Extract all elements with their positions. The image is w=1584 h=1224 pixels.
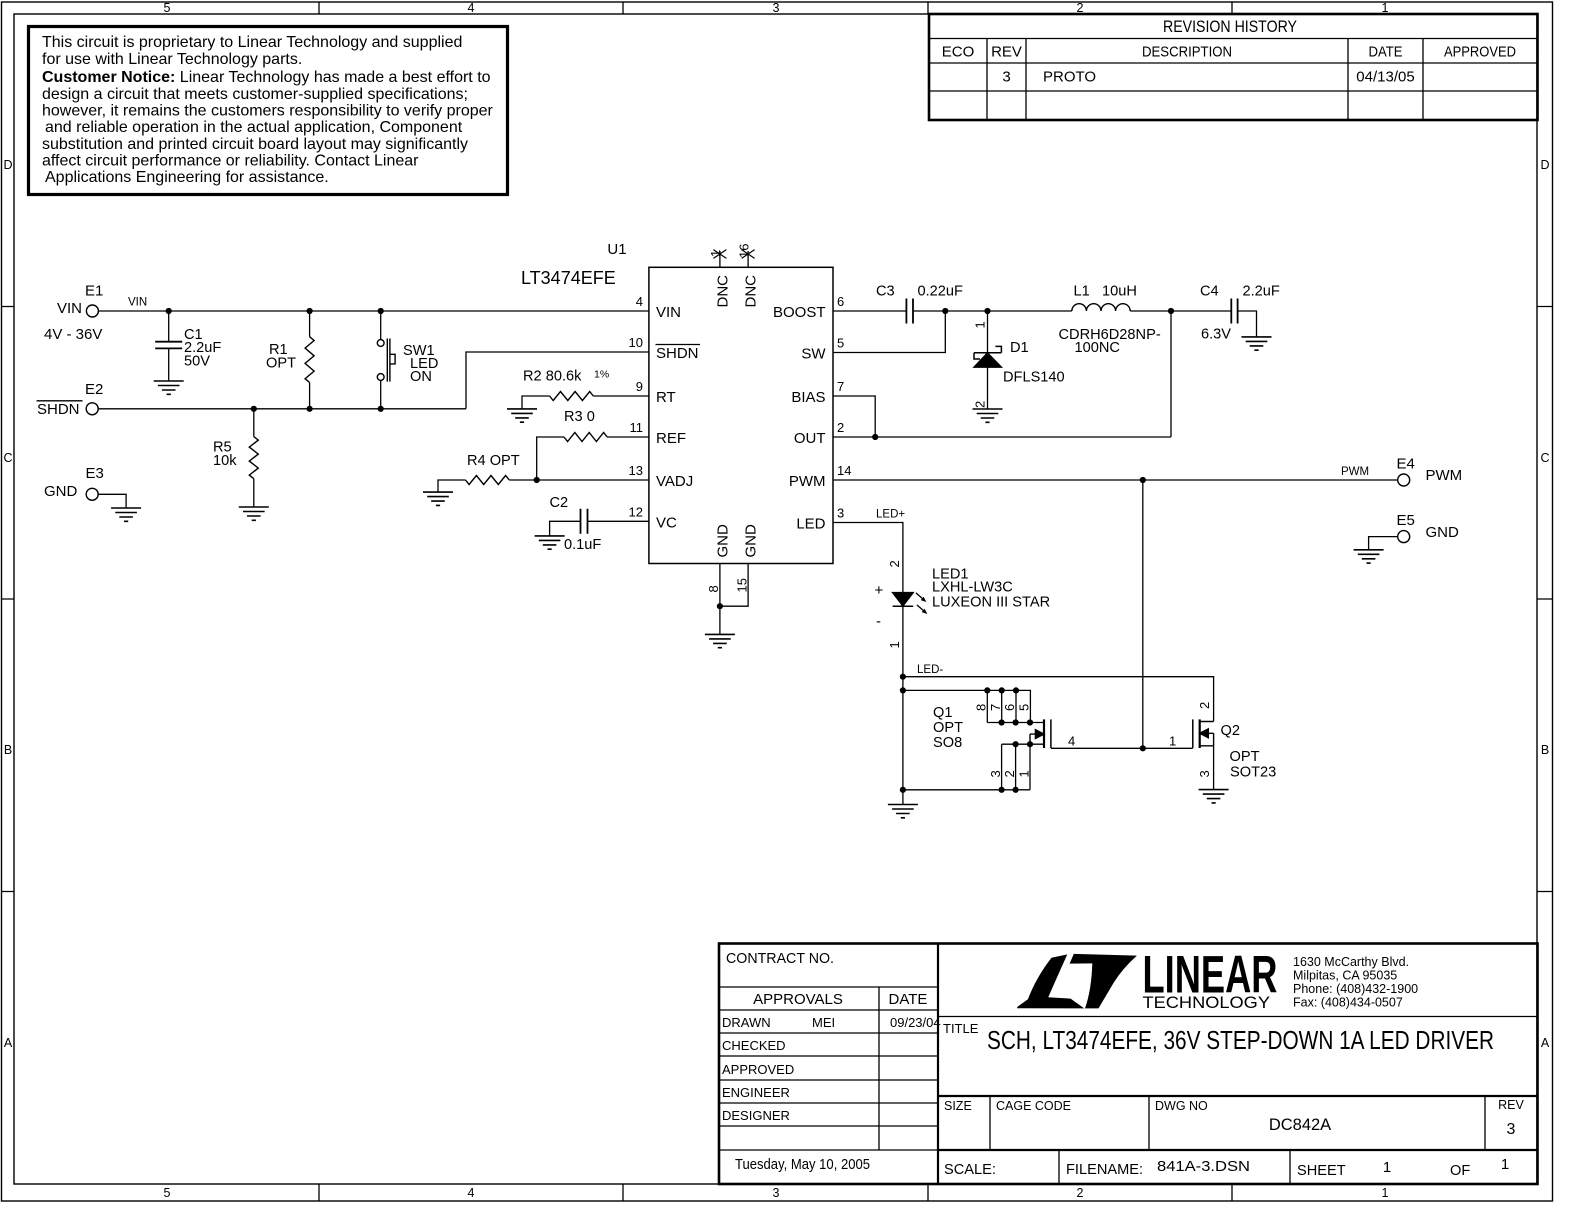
svg-text:MEI: MEI	[812, 1015, 835, 1030]
wire VIN rail E1 to pin 4	[98, 310, 649, 312]
junction VADJ/R3	[534, 477, 540, 483]
svg-text:SHEET: SHEET	[1297, 1163, 1346, 1179]
wire IC pin15 GND stub	[720, 564, 748, 607]
diode D1 schottky	[974, 346, 1001, 367]
wire C1 top leg	[168, 311, 170, 342]
wire SW1 bottom leg	[380, 380, 382, 409]
wire Q1 drain bus	[987, 722, 1044, 724]
svg-text:2: 2	[887, 560, 902, 567]
wire pin 2 OUT	[833, 436, 1171, 438]
svg-text:3: 3	[988, 770, 1003, 777]
connector E3	[86, 488, 98, 500]
svg-text:1: 1	[1169, 734, 1176, 749]
svg-text:04/13/05: 04/13/05	[1356, 69, 1414, 86]
svg-text:Q1: Q1	[933, 705, 952, 721]
junction IC GND pins	[717, 603, 723, 609]
svg-text:2: 2	[1077, 1186, 1084, 1200]
wire E5 to ground	[1369, 537, 1398, 550]
svg-text:C: C	[3, 451, 12, 465]
customer notice box	[29, 27, 508, 195]
wire DNC pin1 stub	[719, 251, 721, 267]
svg-text:1: 1	[708, 250, 723, 257]
svg-text:TECHNOLOGY: TECHNOLOGY	[1143, 993, 1271, 1012]
svg-text:Tuesday, May 10, 2005: Tuesday, May 10, 2005	[735, 1157, 870, 1173]
svg-text:841A-3.DSN: 841A-3.DSN	[1157, 1158, 1250, 1175]
svg-text:Customer Notice: Linear Techno: Customer Notice: Linear Technology has m…	[42, 69, 491, 86]
ground at C1	[154, 381, 184, 394]
svg-text:3: 3	[837, 506, 844, 521]
junction Q1 pin8 top	[984, 687, 990, 693]
junction Q1 drain bus c	[1027, 719, 1033, 725]
title block outline	[719, 944, 1538, 1185]
svg-text:E5: E5	[1397, 512, 1415, 529]
wire gate line Q1 pin4 to Q2 pin1	[1051, 747, 1193, 749]
svg-text:GND: GND	[1426, 524, 1460, 541]
LED LED1	[893, 593, 928, 614]
junction VIN/R1	[307, 308, 313, 314]
svg-text:D1: D1	[1010, 340, 1029, 356]
ground at C2	[535, 536, 565, 549]
svg-text:5: 5	[164, 1, 171, 15]
connector E4	[1398, 474, 1410, 486]
wire LED- to Q1 top bus	[903, 690, 1031, 722]
connector E1	[86, 305, 98, 317]
wire E3 to ground	[98, 494, 126, 508]
svg-text:ECO: ECO	[942, 44, 975, 61]
svg-text:3: 3	[1507, 1121, 1516, 1138]
svg-text:Fax: (408)434-0507: Fax: (408)434-0507	[1293, 996, 1403, 1010]
svg-text:LXHL-LW3C: LXHL-LW3C	[932, 580, 1013, 596]
svg-text:1: 1	[1501, 1156, 1509, 1173]
svg-text:DESCRIPTION: DESCRIPTION	[1142, 44, 1232, 61]
junction Q1 drain bus b	[1013, 719, 1019, 725]
wire pin 6 BOOST to C3	[833, 310, 906, 312]
zone tick marks left	[2, 307, 15, 892]
wire Q1 pin2 stub	[1015, 744, 1017, 790]
svg-text:BOOST: BOOST	[773, 304, 826, 321]
resistor R5	[249, 437, 258, 479]
svg-text:+: +	[875, 582, 884, 599]
ground at E5	[1354, 550, 1384, 563]
ground at R2	[507, 409, 537, 422]
wire SHDN rail E2 to corner	[98, 408, 466, 410]
svg-text:1: 1	[1017, 770, 1032, 777]
svg-text:14: 14	[837, 463, 851, 478]
wire Q1 ground stub	[902, 790, 904, 805]
svg-text:REVISION HISTORY: REVISION HISTORY	[1163, 18, 1297, 36]
svg-text:4: 4	[1068, 734, 1075, 749]
svg-text:B: B	[4, 743, 12, 757]
svg-text:6: 6	[837, 294, 844, 309]
svg-text:2: 2	[1002, 770, 1017, 777]
svg-text:E3: E3	[86, 465, 104, 482]
svg-text:U1: U1	[607, 241, 626, 258]
resistor R3	[564, 433, 607, 442]
wire REF corner to VADJ junction	[537, 437, 564, 480]
svg-text:APPROVALS: APPROVALS	[753, 991, 843, 1008]
ground at C4	[1242, 337, 1272, 350]
svg-text:A: A	[1541, 1036, 1550, 1050]
svg-text:REV: REV	[991, 44, 1022, 61]
svg-text:6.3V: 6.3V	[1201, 327, 1231, 343]
svg-text:ON: ON	[410, 369, 432, 385]
svg-text:VADJ: VADJ	[656, 473, 693, 490]
svg-text:GND: GND	[44, 483, 78, 500]
svg-text:VIN: VIN	[57, 300, 82, 317]
wire IC pin8 GND stub	[719, 564, 721, 607]
capacitor C1	[155, 342, 182, 349]
junction SHDN/R1	[307, 406, 313, 412]
wire C1 bottom leg	[168, 348, 170, 381]
svg-text:DRAWN: DRAWN	[722, 1015, 771, 1030]
svg-text:4: 4	[468, 1186, 475, 1200]
svg-text:2: 2	[973, 401, 988, 408]
svg-text:DNC: DNC	[743, 275, 760, 308]
connector E5	[1398, 531, 1410, 543]
junction PWM/gate line	[1140, 745, 1146, 751]
wire R5 top leg	[253, 409, 255, 437]
svg-text:L1: L1	[1074, 284, 1090, 300]
junction BOOST/SW	[942, 308, 948, 314]
svg-text:E1: E1	[85, 283, 103, 300]
wire IC ground stub	[719, 606, 721, 634]
svg-text:2.2uF: 2.2uF	[1243, 284, 1280, 300]
svg-text:0.22uF: 0.22uF	[918, 284, 964, 300]
junction VIN/C1	[166, 308, 172, 314]
junction BIAS/OUT	[872, 434, 878, 440]
svg-text:GND: GND	[715, 524, 732, 558]
svg-text:2: 2	[1197, 702, 1212, 709]
svg-text:ENGINEER: ENGINEER	[722, 1085, 790, 1100]
ground at Q1	[888, 805, 918, 818]
wire SW1 top leg	[380, 311, 382, 340]
svg-text:4V - 36V: 4V - 36V	[44, 326, 102, 343]
svg-text:design a circuit that meets cu: design a circuit that meets customer-sup…	[42, 86, 468, 103]
svg-text:5: 5	[164, 1186, 171, 1200]
svg-text:10k: 10k	[213, 453, 237, 469]
svg-text:OF: OF	[1450, 1163, 1470, 1179]
junction LED- bus	[900, 687, 906, 693]
transistor Q2 mosfet	[1193, 719, 1214, 748]
svg-text:13: 13	[629, 463, 643, 478]
svg-text:SOT23: SOT23	[1230, 765, 1276, 781]
svg-text:CONTRACT NO.: CONTRACT NO.	[726, 950, 834, 967]
svg-text:PWM: PWM	[1426, 467, 1463, 484]
wire R4 ground leg	[438, 480, 466, 492]
svg-text:15: 15	[735, 578, 750, 592]
svg-text:OPT: OPT	[266, 356, 296, 372]
zone tick marks top	[319, 2, 1232, 14]
svg-text:C2: C2	[550, 495, 569, 511]
svg-text:DESIGNER: DESIGNER	[722, 1108, 790, 1123]
no-connect X on pin 16	[742, 250, 755, 259]
svg-text:100NC: 100NC	[1075, 340, 1120, 356]
svg-text:OUT: OUT	[794, 430, 826, 447]
svg-text:for use with Linear Technology: for use with Linear Technology parts.	[42, 51, 302, 68]
revision history table	[929, 14, 1538, 120]
svg-text:B: B	[1541, 743, 1549, 757]
svg-text:3: 3	[1002, 69, 1010, 86]
svg-text:DFLS140: DFLS140	[1003, 370, 1065, 386]
wire R5 ground leg	[253, 479, 255, 507]
svg-text:APPROVED: APPROVED	[1444, 44, 1516, 61]
wire C3 to L1	[913, 310, 1072, 312]
capacitor C2	[581, 509, 588, 534]
zone tick marks right	[1537, 307, 1552, 892]
svg-text:PROTO: PROTO	[1043, 69, 1096, 86]
capacitor C4	[1231, 299, 1237, 324]
wire LED- drop to Q1 ground bus	[902, 677, 904, 790]
wire Q1 pin8 stub	[986, 690, 988, 722]
svg-text:REV: REV	[1498, 1098, 1524, 1112]
svg-text:C: C	[1540, 451, 1549, 465]
svg-text:7: 7	[988, 704, 1003, 711]
svg-text:50V: 50V	[184, 354, 210, 370]
svg-text:DATE: DATE	[889, 991, 928, 1008]
svg-text:however, it remains the custom: however, it remains the customers respon…	[42, 103, 494, 120]
wire SHDN riser to pin 10	[466, 352, 649, 409]
capacitor C3	[906, 299, 913, 324]
zone tick marks bottom	[319, 1184, 1232, 1201]
junction SHDN/R5	[251, 406, 257, 412]
svg-text:SO8: SO8	[933, 735, 962, 751]
svg-text:VIN: VIN	[128, 297, 147, 309]
svg-text:-: -	[876, 613, 881, 630]
svg-text:1: 1	[973, 321, 988, 328]
wire pin 5 SW	[833, 311, 945, 353]
svg-text:SHDN: SHDN	[37, 401, 80, 418]
wire LED1 cathode to LED- rail	[902, 606, 904, 676]
resistor R4	[466, 476, 510, 485]
svg-text:REF: REF	[656, 430, 686, 447]
wire Q1 source bus	[1016, 743, 1044, 745]
svg-text:Q2: Q2	[1221, 723, 1240, 739]
svg-text:SCH, LT3474EFE, 36V STEP-DOWN: SCH, LT3474EFE, 36V STEP-DOWN 1A LED DRI…	[987, 1025, 1494, 1055]
resistor R1	[305, 337, 314, 383]
svg-text:CHECKED: CHECKED	[722, 1038, 786, 1053]
wire D1 cathode leg	[987, 311, 989, 353]
wire RT to R2 ground leg	[522, 396, 550, 409]
svg-text:1: 1	[1382, 1186, 1389, 1200]
svg-text:D: D	[1540, 158, 1549, 172]
svg-text:LED: LED	[796, 516, 825, 533]
wire pin 11 REF	[607, 436, 649, 438]
switch SW1	[377, 339, 395, 382]
connector E2	[86, 403, 98, 415]
junction SHDN/SW1	[378, 406, 384, 412]
svg-text:R4 OPT: R4 OPT	[467, 453, 520, 469]
ground at R4	[423, 492, 453, 505]
svg-text:PWM: PWM	[789, 473, 826, 490]
wire pin 9 RT	[593, 395, 649, 397]
svg-text:12: 12	[629, 505, 643, 520]
no-connect X on pin 1	[713, 250, 726, 259]
wire pin 13 VADJ	[509, 479, 649, 481]
svg-text:5: 5	[1017, 704, 1032, 711]
junction L1/C4/OUT	[1168, 308, 1174, 314]
wire Q1 pin6 stub	[1015, 690, 1017, 722]
svg-text:1630 McCarthy Blvd.: 1630 McCarthy Blvd.	[1293, 955, 1409, 969]
svg-text:DC842A: DC842A	[1269, 1116, 1331, 1134]
wire Q1 bottom ground bus	[903, 789, 1030, 791]
wire pin 3 LED	[833, 523, 903, 593]
junction Q1 pin7 top	[999, 687, 1005, 693]
svg-text:7: 7	[837, 379, 844, 394]
svg-text:Milpitas, CA 95035: Milpitas, CA 95035	[1293, 969, 1397, 983]
svg-text:11: 11	[630, 420, 644, 435]
svg-text:VIN: VIN	[656, 304, 681, 321]
ground at E3	[111, 508, 141, 521]
svg-text:9: 9	[636, 379, 643, 394]
svg-text:E2: E2	[85, 381, 103, 398]
svg-text:2: 2	[837, 420, 844, 435]
junction LED- rail	[900, 674, 906, 680]
svg-text:Applications Engineering for a: Applications Engineering for assistance.	[45, 169, 329, 186]
resistor R2	[550, 392, 594, 401]
svg-text:LED-: LED-	[917, 664, 943, 676]
wire R1 top leg	[309, 311, 311, 337]
svg-text:10uH: 10uH	[1102, 284, 1137, 300]
junction Q1 pin6 top	[1013, 687, 1019, 693]
svg-text:BIAS: BIAS	[791, 389, 825, 406]
svg-text:DWG NO: DWG NO	[1155, 1099, 1208, 1113]
svg-text:CAGE CODE: CAGE CODE	[996, 1099, 1071, 1113]
IC U1 body	[649, 267, 833, 563]
svg-text:E4: E4	[1397, 456, 1415, 473]
svg-text:A: A	[4, 1036, 13, 1050]
svg-text:0.1uF: 0.1uF	[564, 537, 601, 553]
svg-text:C3: C3	[876, 284, 895, 300]
ground at R5	[239, 507, 269, 520]
ground at IC GND pins	[705, 634, 735, 647]
wire C4 to ground drop	[1238, 311, 1257, 337]
ground at D1	[973, 409, 1003, 422]
junction PWM rail	[1140, 477, 1146, 483]
wire Q1 pin7 stub	[1001, 690, 1003, 722]
svg-text:FILENAME:: FILENAME:	[1066, 1162, 1143, 1178]
svg-text:Phone: (408)432-1900: Phone: (408)432-1900	[1293, 982, 1418, 996]
wire DNC pin16 stub	[747, 251, 749, 267]
svg-text:1%: 1%	[594, 369, 609, 381]
svg-text:LT3474EFE: LT3474EFE	[521, 268, 616, 288]
svg-text:OPT: OPT	[1230, 749, 1260, 765]
junction VIN/SW1	[378, 308, 384, 314]
svg-text:3: 3	[1197, 770, 1212, 777]
svg-text:16: 16	[736, 244, 751, 258]
svg-text:SCALE:: SCALE:	[944, 1162, 996, 1178]
svg-text:09/23/04: 09/23/04	[890, 1015, 941, 1030]
svg-text:6: 6	[1002, 704, 1017, 711]
junction Q1 gnd bus b	[1013, 787, 1019, 793]
junction Q1 source a	[1013, 741, 1019, 747]
svg-text:D: D	[3, 158, 12, 172]
svg-text:OPT: OPT	[933, 720, 963, 736]
wire C2 ground leg	[550, 521, 581, 536]
Linear Technology LT logo mark	[1017, 954, 1137, 1009]
wire pin 14 PWM to E4	[833, 479, 1398, 481]
svg-text:SW: SW	[801, 346, 826, 363]
wire Q1 pin1 stub	[1029, 744, 1031, 790]
wire L1 to C4	[1130, 310, 1231, 312]
svg-text:APPROVED: APPROVED	[722, 1062, 794, 1077]
junction Q1 gnd bus left	[900, 787, 906, 793]
svg-text:C4: C4	[1200, 284, 1219, 300]
svg-text:8: 8	[974, 704, 989, 711]
junction Q1 source b	[1027, 741, 1033, 747]
junction BOOST/D1	[984, 308, 990, 314]
svg-text:4: 4	[636, 294, 643, 309]
svg-text:GND: GND	[743, 524, 760, 558]
svg-text:and reliable operation in the: and reliable operation in the actual app…	[45, 119, 463, 136]
wire pin 7 BIAS	[833, 396, 875, 437]
svg-text:1: 1	[887, 641, 902, 648]
wire Q1 pin3 stub	[1002, 744, 1016, 790]
svg-text:LED+: LED+	[876, 509, 905, 521]
junction Q1 gnd bus a	[999, 787, 1005, 793]
wire D1 anode to ground	[987, 367, 989, 409]
svg-text:8: 8	[706, 585, 721, 592]
svg-text:R2 80.6k: R2 80.6k	[523, 369, 582, 385]
svg-text:4: 4	[468, 1, 475, 15]
wire Q2 source to ground	[1213, 746, 1215, 790]
svg-text:affect circuit performance or: affect circuit performance or reliabilit…	[42, 153, 419, 170]
ground at Q2	[1199, 790, 1229, 803]
svg-text:TITLE: TITLE	[943, 1021, 979, 1036]
svg-text:R3 0: R3 0	[564, 409, 595, 425]
svg-text:RT: RT	[656, 389, 676, 406]
svg-text:SHDN: SHDN	[656, 345, 699, 362]
svg-text:3: 3	[773, 1186, 780, 1200]
svg-text:VC: VC	[656, 515, 677, 532]
svg-text:1: 1	[1383, 1159, 1391, 1176]
svg-text:5: 5	[837, 336, 844, 351]
wire PWM drop to gates	[1142, 480, 1144, 748]
svg-text:10: 10	[629, 335, 643, 350]
svg-text:3: 3	[773, 1, 780, 15]
svg-text:DNC: DNC	[715, 275, 732, 308]
junction Q1 drain bus a	[999, 719, 1005, 725]
wire R1 bottom leg	[309, 383, 311, 409]
svg-text:DATE: DATE	[1369, 44, 1403, 61]
svg-text:PWM: PWM	[1341, 466, 1369, 478]
svg-text:LUXEON III STAR: LUXEON III STAR	[932, 595, 1050, 611]
inductor L1	[1072, 304, 1130, 311]
wire LED- rail to Q2 drain	[903, 677, 1214, 722]
wire OUT riser to L1/C4 junction	[1170, 311, 1172, 437]
svg-text:substitution and printed circu: substitution and printed circuit board l…	[42, 136, 468, 153]
svg-text:SIZE: SIZE	[944, 1099, 972, 1113]
wire pin 12 VC	[588, 520, 649, 522]
svg-text:This circuit is proprietary to: This circuit is proprietary to Linear Te…	[42, 34, 462, 51]
transistor Q1 mosfet	[1030, 719, 1051, 748]
